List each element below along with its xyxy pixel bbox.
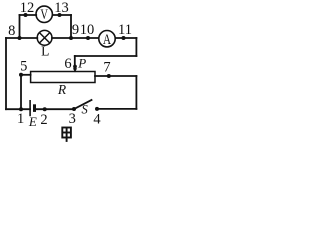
wire main middle (lamp to ammeter) bbox=[52, 37, 99, 39]
node 11 bbox=[122, 36, 126, 40]
svg-text:E: E bbox=[28, 114, 37, 129]
wire main right (ammeter to right corner) bbox=[115, 37, 136, 39]
node 5 bbox=[19, 73, 23, 77]
wire voltmeter right horizontal bbox=[53, 14, 71, 16]
node 2 bbox=[43, 107, 47, 111]
voltmeter U1 circle bbox=[36, 6, 52, 22]
node 1 bbox=[19, 107, 23, 111]
wire right lower vertical bbox=[135, 76, 137, 109]
battery E long plate bbox=[29, 100, 31, 116]
wire right upper vertical bbox=[135, 38, 137, 56]
svg-text:8: 8 bbox=[8, 23, 15, 39]
svg-text:13: 13 bbox=[54, 0, 69, 16]
wire voltmeter left horizontal bbox=[20, 14, 37, 16]
svg-text:4: 4 bbox=[93, 112, 101, 128]
lamp L cross stroke 1 bbox=[39, 33, 49, 43]
svg-text:9: 9 bbox=[72, 22, 79, 38]
svg-text:A: A bbox=[103, 32, 112, 48]
node 4 bbox=[95, 107, 99, 111]
battery E short plate bbox=[33, 104, 36, 112]
svg-text:6: 6 bbox=[64, 56, 71, 72]
svg-text:P: P bbox=[77, 55, 86, 70]
svg-text:2: 2 bbox=[40, 112, 47, 128]
lamp L circle bbox=[37, 30, 52, 45]
wire node 5 down to node 1 bbox=[20, 75, 22, 109]
node 3 bbox=[72, 107, 76, 111]
svg-text:V: V bbox=[40, 7, 48, 23]
svg-text:L: L bbox=[41, 44, 49, 59]
switch S blade bbox=[74, 100, 92, 109]
wire slider P stem vertical bbox=[74, 56, 76, 68]
rheostat slider arrowhead P bbox=[73, 68, 77, 72]
wire node 5 to rheostat left terminal bbox=[21, 74, 31, 76]
svg-text:S: S bbox=[81, 102, 88, 116]
wire top branch right vertical down to main wire bbox=[70, 15, 72, 38]
svg-text:12: 12 bbox=[20, 0, 35, 16]
node 10 bbox=[86, 36, 90, 40]
wire left vertical bbox=[5, 38, 7, 109]
node 12 bbox=[24, 13, 28, 17]
svg-text:R: R bbox=[57, 82, 67, 97]
node 7 bbox=[107, 74, 111, 78]
svg-text:10: 10 bbox=[80, 22, 95, 38]
wire battery to switch (through node 2) bbox=[35, 108, 75, 110]
node 9 junction bbox=[69, 36, 73, 40]
node 13 bbox=[58, 13, 62, 17]
svg-text:5: 5 bbox=[20, 58, 27, 74]
wire slider P horizontal bbox=[75, 55, 137, 57]
node 6 bbox=[73, 65, 77, 69]
svg-text:3: 3 bbox=[69, 111, 76, 127]
rheostat R body bbox=[31, 72, 95, 83]
svg-text:1: 1 bbox=[17, 111, 24, 127]
ammeter U2 circle bbox=[99, 31, 115, 47]
figure caption 甲 bbox=[62, 128, 71, 142]
svg-text:7: 7 bbox=[103, 60, 110, 76]
wire main left (corner to lamp) bbox=[6, 37, 37, 39]
wire rheostat right terminal bbox=[95, 75, 136, 77]
svg-text:11: 11 bbox=[118, 22, 132, 38]
wire top branch left vertical (node 8 to voltmeter wire) bbox=[19, 15, 21, 38]
node 8 bbox=[18, 36, 22, 40]
lamp L cross stroke 2 bbox=[39, 33, 49, 43]
wire switch right to bottom corner bbox=[97, 108, 136, 110]
wire bottom left (to battery) bbox=[6, 108, 30, 110]
